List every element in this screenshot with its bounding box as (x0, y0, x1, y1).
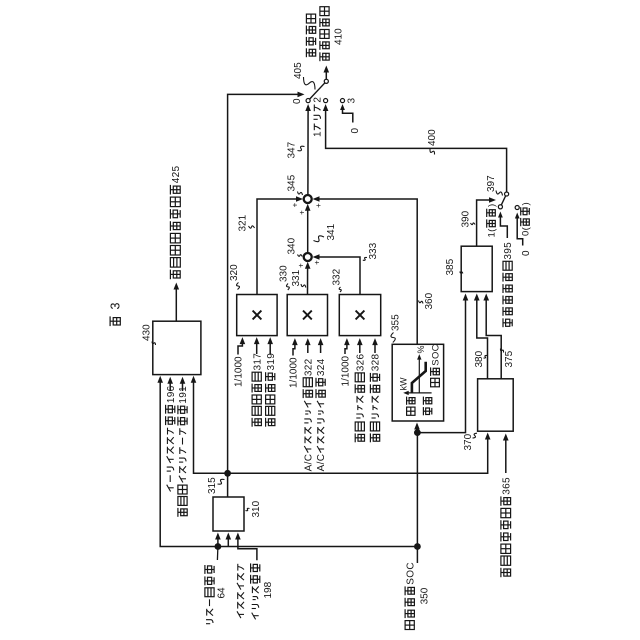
junction dot A (215, 543, 222, 550)
svg-text:198: 198 (263, 581, 274, 598)
figure label Zu 3 (109, 316, 111, 326)
input electric fan current 326 (354, 433, 356, 442)
multiply sign of block 330 (303, 311, 312, 320)
wire 347 from sum 345 to switch 405 contact 0 (307, 107, 309, 195)
label 347 (298, 146, 305, 151)
SOC branch down to block 385 input 1 (417, 296, 465, 433)
svg-text:332: 332 (331, 268, 342, 285)
input motor voltage 319 (265, 418, 267, 427)
junction dot B with SOC input (414, 543, 421, 550)
label 330 (286, 284, 289, 291)
svg-text:2: 2 (313, 97, 324, 103)
label 380 (484, 355, 488, 358)
label 397 (496, 191, 503, 196)
summing junction 345 (304, 195, 312, 203)
svg-text:324: 324 (316, 358, 327, 376)
switch 405 selector (310, 83, 325, 99)
minimum generation power 395 input (502, 318, 504, 327)
label 321 (249, 226, 255, 228)
label storage device SOC 350 (405, 621, 414, 630)
svg-text:1/1000: 1/1000 (341, 355, 352, 386)
block 370 (generation capacity) (478, 379, 514, 431)
wire 390 from block 385 to switch 397 (477, 200, 494, 246)
label 355 (391, 333, 395, 343)
map x-axis percent (418, 356, 420, 393)
label 341 (314, 236, 325, 242)
block 430 (motor target speed computation) (153, 321, 201, 374)
wire 315 long branch to switch 405 (228, 94, 300, 473)
label fuel cell generation target 410 (305, 48, 307, 57)
map label discharge (422, 407, 424, 415)
svg-text:0: 0 (350, 128, 361, 134)
SOC horizontal line to dot C and block 355 (416, 433, 418, 563)
svg-text:64: 64 (216, 587, 227, 599)
svg-text:410: 410 (334, 28, 345, 45)
svg-text:430: 430 (142, 324, 153, 341)
label 333 (363, 257, 367, 260)
svg-text:191: 191 (178, 386, 189, 404)
svg-text:+: + (296, 263, 305, 268)
svg-text:%: % (416, 345, 426, 353)
multiply sign of block 320 (253, 311, 262, 320)
svg-text:): ) (520, 202, 531, 205)
svg-text:196: 196 (166, 385, 177, 403)
svg-text:340: 340 (287, 237, 298, 254)
svg-text:345: 345 (287, 174, 298, 191)
label 370 (473, 433, 478, 438)
svg-text:kW: kW (399, 377, 409, 391)
svg-text:0(: 0( (520, 226, 531, 236)
wire to block 310 input 2 (227, 535, 229, 547)
label 331 (301, 284, 306, 288)
label lever operation amount 64 (206, 623, 210, 625)
svg-text:3: 3 (109, 303, 123, 310)
svg-text:315: 315 (207, 477, 218, 494)
map label target SOC (431, 378, 440, 387)
svg-text:+: + (314, 203, 323, 208)
svg-text:365: 365 (501, 477, 512, 495)
wire 315 branch down to block 370 input (228, 435, 488, 474)
label motor target speed 425 (169, 270, 171, 280)
label 390 (471, 223, 476, 225)
block 355 charge-discharge map (392, 344, 443, 421)
svg-text:1: 1 (313, 131, 324, 137)
multiply sign of block 332 (356, 311, 365, 320)
junction dot C (414, 429, 421, 436)
block 430 output arrow motor target speed 425 (175, 286, 177, 322)
block 385 (generation demand) (461, 246, 492, 291)
svg-text:347: 347 (287, 141, 298, 158)
wire 331 from block 330 to sum 340 (307, 265, 309, 295)
storage device SOC main line (160, 378, 417, 547)
svg-text:A/C: A/C (303, 454, 314, 472)
wire 333 from block 332 to sum 340 (315, 257, 360, 295)
svg-text:0: 0 (292, 98, 303, 104)
svg-text:390: 390 (461, 210, 472, 227)
wire to block 310 input 1 (217, 535, 219, 547)
multiplier block 330 (287, 295, 327, 336)
svg-text:397: 397 (486, 175, 497, 192)
input motor control setting 191 (177, 508, 179, 517)
svg-text:385: 385 (445, 258, 456, 275)
idling stop setting elbow into block 310 input 3 (238, 535, 257, 561)
svg-text:405: 405 (293, 62, 304, 79)
label idling stop setting 198 (237, 611, 241, 618)
svg-text:395: 395 (503, 242, 514, 260)
label 405 (304, 77, 316, 90)
switch 405 output arrow to 410 (325, 69, 327, 79)
wire 400 from switch 397 to switch 405 contact 1or2 (326, 108, 507, 192)
svg-text:328: 328 (371, 353, 382, 371)
input motor actual speed 365 (500, 568, 502, 577)
label 360 (419, 301, 424, 304)
wire 375 from block 370 to block 385 (486, 296, 501, 379)
svg-text:1/1000: 1/1000 (289, 357, 300, 388)
map label charge (407, 407, 415, 415)
svg-text:322: 322 (303, 358, 314, 376)
wire 315 from block 310 output (227, 473, 229, 497)
svg-text:310: 310 (251, 500, 262, 517)
input electric fan voltage 328 (369, 433, 371, 442)
label 345 (298, 192, 303, 196)
label 315 (218, 479, 225, 484)
svg-text:370: 370 (463, 433, 474, 450)
label 340 (298, 255, 303, 257)
svg-text:1/1000: 1/1000 (234, 356, 245, 387)
label 375 (500, 349, 503, 353)
svg-text:341: 341 (326, 223, 337, 240)
label 320 (237, 283, 240, 290)
input motor current 317 (251, 418, 253, 427)
svg-text:425: 425 (171, 165, 182, 183)
svg-text:319: 319 (266, 353, 277, 371)
svg-text:A/C: A/C (316, 454, 327, 472)
svg-text:1(: 1( (486, 228, 497, 238)
svg-text:317: 317 (252, 353, 263, 371)
svg-text:+: + (290, 202, 299, 207)
multiplier block 320 (237, 295, 277, 336)
svg-text:+: + (312, 260, 321, 265)
label 332 (339, 287, 341, 292)
svg-text:): ) (486, 204, 497, 207)
multiplier block 332 (339, 295, 380, 336)
arrow into block 355 (416, 425, 418, 433)
svg-text:3: 3 (346, 98, 357, 104)
svg-text:0: 0 (521, 250, 532, 256)
svg-text:360: 360 (424, 292, 435, 309)
summing junction 340 (304, 253, 312, 261)
svg-text:350: 350 (419, 587, 430, 604)
svg-text:326: 326 (355, 353, 366, 371)
svg-text:SOC: SOC (430, 344, 441, 366)
lever input wire (216, 547, 219, 561)
svg-text:330: 330 (279, 265, 290, 282)
label 310 (246, 508, 250, 510)
svg-text:331: 331 (291, 269, 302, 286)
svg-text:320: 320 (229, 264, 240, 281)
svg-text:380: 380 (474, 350, 485, 367)
wire 341 from sum 340 to sum 345 (307, 207, 309, 253)
svg-text:400: 400 (427, 129, 438, 146)
wire 321 from block 320 to sum 345 (257, 199, 301, 295)
switch 397 selector (501, 196, 506, 206)
svg-text:321: 321 (238, 214, 249, 231)
map curve (412, 362, 426, 393)
svg-text:375: 375 (504, 350, 515, 367)
map y-axis kW (405, 392, 431, 394)
wire 360 from block 355 to sum 345 (315, 199, 417, 344)
svg-text:333: 333 (368, 242, 379, 259)
svg-text:SOC: SOC (405, 562, 416, 585)
wire 315 branch up to block 430 input (194, 378, 228, 473)
label 385 (460, 272, 463, 274)
input auto idle setting 196 (167, 485, 171, 492)
label 430 (152, 342, 156, 346)
label 400 (430, 149, 435, 155)
block 310 (mode select) (213, 497, 244, 531)
wire 380 from block 370 to block 385 (477, 296, 488, 379)
svg-text:355: 355 (390, 314, 401, 331)
